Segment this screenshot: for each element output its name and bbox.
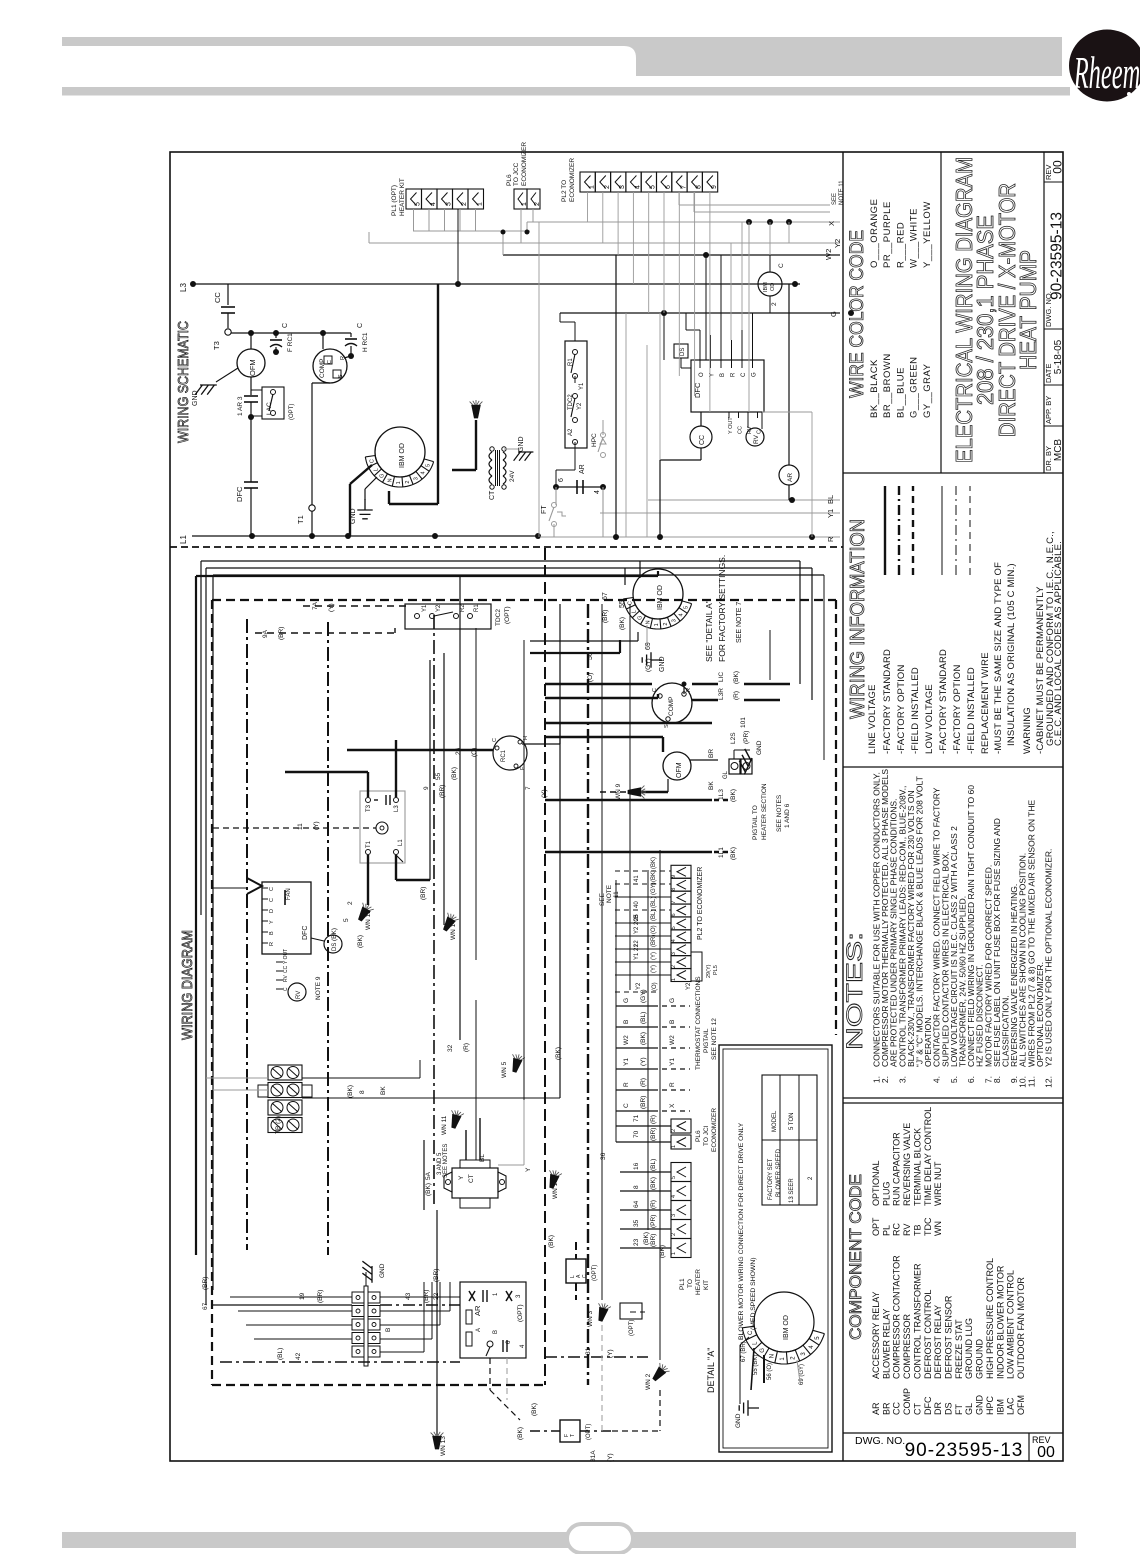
svg-text:Y1: Y1 [623, 1058, 630, 1066]
compressor contactor coil CC (schematic) [660, 412, 712, 537]
wire C row [231, 332, 351, 334]
svg-text:5: 5 [671, 1176, 677, 1179]
svg-text:(MED.SPEED SHOWN): (MED.SPEED SHOWN) [750, 1257, 757, 1330]
svg-text:4: 4 [671, 1195, 677, 1198]
svg-text:11: 11 [297, 823, 304, 830]
svg-text:PL1: PL1 [679, 1278, 686, 1290]
svg-text:T3: T3 [366, 804, 372, 812]
compressor COMP (diagram) [652, 683, 692, 728]
svg-text:T1: T1 [296, 515, 305, 524]
svg-text:8: 8 [696, 185, 703, 189]
bottom title strip DWG NO 90-23595-13 REV 00 [855, 1433, 1055, 1461]
svg-text:TDC2: TDC2 [568, 394, 574, 410]
low voltage rail BL [648, 495, 840, 504]
svg-text:69: 69 [645, 642, 652, 650]
OFM feed wires [545, 717, 750, 792]
svg-text:BK__BLACK: BK__BLACK [869, 359, 880, 418]
svg-text:FACTORY SET: FACTORY SET [768, 1158, 774, 1200]
capacitor RC1-F [270, 323, 294, 355]
svg-text:3 AND 5: 3 AND 5 [437, 1152, 443, 1175]
low ambient control LAC [251, 387, 295, 420]
svg-text:(BR): (BR) [202, 1277, 209, 1290]
svg-text:PL5: PL5 [713, 965, 719, 975]
svg-text:(OPT): (OPT) [629, 1320, 635, 1336]
svg-text:WN 14: WN 14 [450, 920, 457, 940]
svg-text:-FACTORY OPTION: -FACTORY OPTION [896, 664, 907, 754]
svg-text:GY__GRAY: GY__GRAY [922, 363, 933, 418]
svg-text:IBM OD: IBM OD [783, 1315, 790, 1340]
svg-text:PL6: PL6 [695, 1130, 702, 1142]
svg-text:GND: GND [659, 656, 666, 672]
wiring information legend [847, 486, 1064, 754]
svg-text:(PR): (PR) [650, 1215, 657, 1228]
svg-text:3: 3 [619, 185, 626, 189]
left edge wire bus [196, 561, 824, 1305]
svg-text:G: G [379, 474, 385, 478]
svg-text:R: R [669, 1082, 676, 1087]
svg-text:DR: DR [933, 1402, 943, 1415]
svg-text:C: C [327, 360, 333, 364]
svg-text:BR__BROWN: BR__BROWN [882, 353, 893, 418]
svg-text:NOTES:: NOTES: [842, 932, 867, 1050]
time delay control TDC2 (diagram) [255, 604, 511, 960]
svg-text:GL: GL [964, 1403, 974, 1415]
svg-text:31: 31 [585, 1347, 592, 1355]
node L1 rail [179, 533, 541, 544]
svg-text:(BR): (BR) [317, 1290, 324, 1303]
svg-text:R___RED: R___RED [895, 222, 906, 268]
svg-text:G: G [760, 1348, 766, 1353]
svg-text:(Y): (Y) [541, 789, 548, 798]
svg-text:16: 16 [633, 1162, 640, 1170]
svg-text:2.: 2. [880, 1076, 890, 1083]
svg-text:B: B [623, 1020, 630, 1024]
svg-text:DETAIL "A": DETAIL "A" [706, 1348, 716, 1393]
svg-text:(BR): (BR) [420, 887, 427, 900]
svg-text:(BR): (BR) [423, 1290, 430, 1303]
svg-text:BR: BR [708, 749, 715, 758]
svg-text:DS: DS [332, 943, 338, 951]
svg-text:OFM: OFM [676, 762, 683, 778]
svg-text:AR: AR [579, 464, 586, 474]
svg-text:H RC1: H RC1 [362, 332, 369, 352]
svg-text:LAC: LAC [1006, 1397, 1016, 1415]
svg-text:Y2: Y2 [636, 982, 642, 990]
capacitor DFC (defrost) [235, 417, 258, 536]
svg-text:IBM OD: IBM OD [657, 585, 664, 610]
svg-text:40: 40 [634, 901, 640, 908]
svg-text:C: C [357, 323, 364, 328]
svg-text:(BK): (BK) [730, 847, 737, 860]
svg-text:2: 2 [671, 965, 677, 968]
svg-text:42: 42 [295, 1352, 302, 1360]
svg-text:(BL): (BL) [650, 1159, 657, 1171]
svg-text:6: 6 [671, 913, 677, 916]
svg-text:5A: 5A [425, 1171, 432, 1180]
svg-text:C: C [582, 1274, 588, 1278]
svg-text:4: 4 [594, 490, 601, 494]
plug PL1 to heater kit (diagram) [620, 1159, 710, 1295]
svg-text:LAC: LAC [266, 402, 273, 415]
svg-text:2: 2 [604, 185, 611, 189]
low voltage rail G [560, 310, 854, 317]
svg-text:(R): (R) [640, 1078, 647, 1087]
svg-text:4: 4 [430, 202, 437, 206]
outdoor fan motor OFM (diagram) [663, 752, 691, 780]
svg-text:C: C [623, 1103, 630, 1108]
svg-text:S: S [338, 374, 344, 378]
svg-text:AR: AR [473, 1305, 482, 1316]
svg-text:6: 6 [558, 478, 565, 482]
COMP feed wires [545, 671, 790, 700]
svg-text:67 (BR): 67 (BR) [741, 1341, 747, 1362]
svg-text:COMPRESSOR: COMPRESSOR [902, 1313, 912, 1379]
svg-text:NOTE 9: NOTE 9 [315, 976, 322, 1000]
svg-text:8: 8 [633, 1185, 640, 1189]
svg-text:(BL): (BL) [651, 910, 657, 921]
svg-text:L1: L1 [398, 839, 404, 846]
compressor COMP (schematic) [313, 330, 347, 383]
svg-text:(R): (R) [733, 691, 740, 700]
svg-text:GND: GND [379, 1263, 386, 1278]
svg-text:PL2 TO ECONOMIZER: PL2 TO ECONOMIZER [697, 867, 704, 940]
svg-text:70: 70 [633, 1130, 640, 1138]
svg-text:29(Y): 29(Y) [706, 964, 712, 978]
svg-text:(Y): (Y) [607, 1453, 614, 1462]
svg-text:WN 3: WN 3 [587, 1310, 594, 1327]
svg-text:19: 19 [299, 1292, 306, 1300]
svg-text:RV: RV [902, 1224, 912, 1236]
svg-text:Y: Y [525, 1167, 532, 1172]
wire color code table [847, 199, 933, 418]
svg-text:8: 8 [359, 1090, 366, 1094]
svg-text:5: 5 [415, 202, 422, 206]
svg-text:Y2: Y2 [686, 982, 692, 990]
defrost control DFC (diagram) [262, 882, 311, 991]
lower horizontal runs [213, 1210, 660, 1435]
svg-text:56 (O): 56 (O) [767, 1363, 773, 1380]
svg-text:1L1: 1L1 [718, 847, 725, 858]
svg-text:3: 3 [671, 1214, 677, 1217]
svg-text:CT: CT [468, 1174, 475, 1183]
svg-text:CT: CT [489, 490, 496, 500]
svg-text:(BK): (BK) [357, 935, 364, 948]
svg-text:(OPT): (OPT) [517, 1304, 524, 1322]
svg-text:BLOWER SPEED: BLOWER SPEED [776, 1148, 782, 1197]
RC1 capacitor (diagram) [347, 723, 560, 770]
svg-text:L2S: L2S [730, 732, 737, 744]
svg-text:WN 2: WN 2 [645, 1373, 652, 1390]
capacitor RC1-H [344, 323, 369, 359]
svg-text:DATE: DATE [1044, 364, 1053, 383]
svg-text:TB (2): TB (2) [275, 1116, 282, 1134]
svg-text:GND: GND [192, 390, 199, 406]
svg-text:9: 9 [671, 875, 677, 878]
svg-text:(BK): (BK) [619, 617, 626, 630]
component code table [846, 1107, 1026, 1415]
LAC box (diagram) [548, 1235, 598, 1300]
svg-text:CC: CC [213, 292, 222, 303]
svg-text:SEE NOTES: SEE NOTES [776, 794, 783, 832]
svg-text:CC: CC [892, 1402, 902, 1415]
title block revision strip [1044, 160, 1066, 471]
svg-text:Y___YELLOW: Y___YELLOW [922, 201, 933, 268]
svg-text:TERMINAL BLOCK: TERMINAL BLOCK [912, 1128, 922, 1206]
svg-text:OD: OD [770, 283, 776, 291]
svg-text:G: G [829, 311, 838, 317]
capacitor 1 AR 3 [237, 377, 258, 420]
plug PL2 to economizer (diagram) [599, 865, 704, 981]
svg-text:PL1 (OPT): PL1 (OPT) [391, 185, 398, 216]
svg-text:(OPT): (OPT) [592, 1265, 598, 1281]
PL2 wire rows [615, 857, 719, 992]
svg-text:11.: 11. [1026, 1076, 1036, 1087]
svg-text:32: 32 [447, 1044, 454, 1052]
wire nut WN 9 [600, 783, 646, 800]
svg-text:25: 25 [634, 914, 640, 921]
svg-text:HEAT PUMP: HEAT PUMP [1015, 250, 1041, 370]
svg-text:Y2: Y2 [436, 604, 442, 612]
top feed wires into IBM [330, 561, 658, 682]
svg-text:Y: Y [710, 373, 716, 377]
svg-text:WN 13: WN 13 [440, 1436, 447, 1456]
svg-text:(BR): (BR) [602, 610, 609, 623]
svg-text:00: 00 [1037, 1444, 1055, 1461]
svg-text:APP. BY: APP. BY [1044, 396, 1053, 424]
heavy feed wires to IBM [350, 284, 438, 536]
wire labels left column [202, 601, 666, 1462]
contactor CC box (diagram) [360, 791, 405, 863]
svg-text:OPT: OPT [871, 1217, 881, 1236]
svg-text:1: 1 [396, 481, 402, 484]
ground at OFM [192, 368, 238, 406]
svg-text:COMP: COMP [902, 1388, 912, 1415]
svg-text:G: G [669, 998, 676, 1003]
svg-text:SEE: SEE [832, 193, 838, 205]
svg-text:13 SEER: 13 SEER [789, 1178, 795, 1203]
defrost sensor DS box [674, 344, 691, 368]
svg-text:BL: BL [826, 495, 835, 504]
svg-text:LOW AMBIENT CONTROL: LOW AMBIENT CONTROL [1006, 1270, 1016, 1379]
svg-text:Y1: Y1 [579, 382, 585, 390]
svg-text:5: 5 [425, 464, 431, 467]
svg-text:1: 1 [477, 202, 484, 206]
svg-text:Y OUT: Y OUT [728, 417, 734, 434]
svg-text:WN 10: WN 10 [552, 1179, 559, 1199]
svg-text:8.: 8. [992, 1076, 1002, 1083]
svg-text:BL: BL [479, 1154, 486, 1162]
svg-text:PL2 TO: PL2 TO [561, 180, 568, 202]
svg-text:DFC: DFC [235, 486, 244, 502]
svg-text:L: L [373, 468, 379, 471]
svg-text:(BR): (BR) [650, 1128, 657, 1141]
svg-text:DR. BY: DR. BY [1044, 446, 1053, 471]
detail A motor IBM OD [735, 1292, 824, 1428]
svg-text:WARNING: WARNING [1022, 707, 1033, 754]
svg-text:TB: TB [912, 1224, 922, 1236]
svg-text:36: 36 [600, 1152, 607, 1160]
svg-text:(BR): (BR) [640, 1096, 647, 1109]
svg-text:(BK): (BK) [733, 671, 740, 684]
svg-text:ECONOMIZER: ECONOMIZER [711, 1108, 718, 1152]
svg-text:SEE NOTE 7: SEE NOTE 7 [736, 602, 743, 643]
svg-text:ECONOMIZER: ECONOMIZER [569, 158, 576, 202]
svg-text:COMPONENT CODE: COMPONENT CODE [846, 1174, 865, 1340]
low voltage rail R [540, 534, 840, 542]
svg-text:(BK): (BK) [643, 1232, 650, 1245]
svg-text:(BR): (BR) [439, 785, 446, 798]
svg-text:Rheem: Rheem [1073, 48, 1140, 98]
svg-text:(BK): (BK) [640, 1032, 647, 1045]
svg-text:3: 3 [671, 952, 677, 955]
svg-text:C: C [269, 887, 275, 891]
svg-text:35: 35 [633, 1219, 640, 1227]
svg-text:71: 71 [633, 1114, 640, 1122]
svg-text:7: 7 [671, 901, 677, 904]
svg-text:AR: AR [787, 473, 794, 482]
svg-text:TDC2: TDC2 [495, 609, 502, 626]
svg-text:C: C [778, 263, 785, 268]
svg-text:ACCESSORY RELAY: ACCESSORY RELAY [871, 1291, 881, 1379]
svg-text:FAN: FAN [286, 888, 292, 900]
svg-text:LOW VOLTAGE: LOW VOLTAGE [924, 684, 935, 754]
svg-text:C: C [269, 898, 275, 902]
svg-text:90-23595-13: 90-23595-13 [905, 1440, 1024, 1461]
svg-text:COMP: COMP [668, 697, 675, 717]
svg-text:1 AR 3: 1 AR 3 [237, 396, 244, 416]
svg-text:3: 3 [672, 619, 678, 622]
svg-text:5: 5 [343, 918, 350, 922]
svg-text:DFC: DFC [923, 1396, 933, 1415]
svg-text:(BL): (BL) [277, 1348, 284, 1360]
svg-text:(BR): (BR) [650, 1234, 657, 1247]
svg-text:MCB: MCB [1053, 439, 1064, 462]
svg-text:CC: CC [738, 426, 744, 434]
svg-text:5.: 5. [949, 1076, 959, 1083]
svg-text:INDOOR BLOWER MOTOR: INDOOR BLOWER MOTOR [995, 1265, 1005, 1379]
svg-text:Y: Y [269, 920, 275, 924]
svg-text:2: 2 [405, 481, 411, 484]
svg-text:(OPT): (OPT) [289, 404, 295, 420]
svg-text:HIGH PRESSURE CONTROL: HIGH PRESSURE CONTROL [985, 1258, 995, 1379]
terminal block TB (2) [258, 1065, 312, 1134]
svg-text:S: S [664, 724, 670, 728]
plug PL6 to JCC economizer [506, 142, 541, 209]
svg-text:90-23595-13: 90-23595-13 [1049, 212, 1066, 300]
svg-text:NOTE: NOTE [606, 884, 613, 903]
svg-text:(OPT): (OPT) [504, 606, 511, 624]
svg-text:(BK): (BK) [651, 870, 657, 882]
svg-text:(BK): (BK) [651, 857, 657, 869]
svg-text:(Y): (Y) [651, 965, 657, 973]
svg-text:X: X [669, 1103, 676, 1108]
accessory relay coil AR (schematic) [779, 284, 799, 500]
svg-text:DEFROST CONTROL: DEFROST CONTROL [923, 1290, 933, 1379]
low voltage rail W2 [503, 232, 840, 260]
svg-text:FREEZE STAT: FREEZE STAT [954, 1319, 964, 1379]
svg-text:(BL): (BL) [651, 897, 657, 908]
svg-text:O___ORANGE: O___ORANGE [869, 199, 880, 268]
svg-text:X: X [827, 221, 836, 226]
svg-text:DEFROST SENSOR: DEFROST SENSOR [944, 1295, 954, 1379]
svg-text:BK: BK [380, 1086, 387, 1095]
svg-text:R: R [623, 1082, 630, 1087]
schematic interconnect wires [413, 192, 812, 537]
svg-text:1: 1 [654, 623, 660, 626]
svg-text:ECONOMIZER: ECONOMIZER [521, 142, 528, 186]
svg-text:101: 101 [740, 717, 747, 728]
svg-text:3.: 3. [897, 1076, 907, 1083]
svg-text:(R): (R) [650, 1200, 657, 1209]
svg-text:1L3: 1L3 [718, 789, 725, 800]
svg-text:67: 67 [602, 592, 609, 600]
svg-text:G: G [752, 372, 758, 377]
svg-text:SEE "DETAIL A": SEE "DETAIL A" [704, 600, 714, 662]
svg-text:2: 2 [671, 1129, 677, 1132]
notes list [842, 769, 1054, 1088]
svg-text:(Y): (Y) [328, 603, 335, 612]
svg-text:HEATER SECTION: HEATER SECTION [761, 783, 768, 840]
svg-text:12.: 12. [1044, 1076, 1054, 1088]
svg-text:L3R: L3R [718, 688, 725, 700]
svg-text:RV: RV [283, 974, 289, 982]
svg-text:BLOWER RELAY: BLOWER RELAY [881, 1309, 891, 1379]
cabinet outline dashed [212, 600, 836, 1385]
svg-text:RC1: RC1 [501, 749, 507, 762]
svg-text:W2: W2 [669, 1035, 676, 1045]
svg-text:RUN CAPACITOR: RUN CAPACITOR [892, 1132, 902, 1206]
svg-text:FT: FT [954, 1404, 964, 1415]
svg-text:WIRING INFORMATION: WIRING INFORMATION [847, 519, 869, 719]
svg-text:(BK): (BK) [517, 1427, 524, 1440]
svg-text:64: 64 [633, 1200, 640, 1208]
svg-text:F RC1: F RC1 [287, 333, 294, 352]
svg-text:(BK): (BK) [331, 928, 338, 941]
svg-text:PL6: PL6 [506, 174, 513, 186]
ground at IBM [350, 477, 377, 524]
svg-text:-FACTORY STANDARD: -FACTORY STANDARD [882, 649, 893, 754]
svg-text:(BK): (BK) [347, 1085, 354, 1098]
drawing sheet frame [170, 152, 1063, 1461]
svg-text:HPC: HPC [591, 433, 598, 447]
svg-text:GND: GND [756, 740, 763, 755]
terminal T3 [212, 329, 231, 350]
svg-text:RV: RV [296, 991, 302, 999]
outdoor fan motor OFM (schematic) [237, 330, 265, 377]
svg-text:(BR): (BR) [651, 935, 657, 947]
svg-text:W2: W2 [623, 1035, 630, 1045]
svg-text:T: T [570, 1434, 576, 1437]
svg-text:NOTE 11: NOTE 11 [839, 180, 845, 205]
svg-text:(PR): (PR) [743, 731, 750, 744]
svg-text:(Y): (Y) [313, 821, 320, 830]
ground lug GL [723, 740, 763, 779]
svg-text:(BK): (BK) [730, 789, 737, 802]
svg-text:PIGTAIL TO: PIGTAIL TO [752, 805, 759, 840]
svg-text:HEATER KIT: HEATER KIT [399, 178, 406, 216]
svg-text:CT: CT [912, 1403, 922, 1415]
pigtail to heater section 1L3 [545, 783, 791, 840]
svg-text:MODEL: MODEL [772, 1110, 778, 1132]
svg-text:Y OUT: Y OUT [283, 949, 289, 964]
svg-text:GROUND LUG: GROUND LUG [964, 1318, 974, 1379]
detail A box [706, 1045, 832, 1452]
svg-text:(GY): (GY) [640, 989, 647, 1003]
svg-text:N: N [645, 620, 651, 624]
svg-text:WN 12: WN 12 [365, 910, 372, 930]
svg-text:G: G [623, 998, 630, 1003]
terminal T1 [296, 383, 330, 536]
